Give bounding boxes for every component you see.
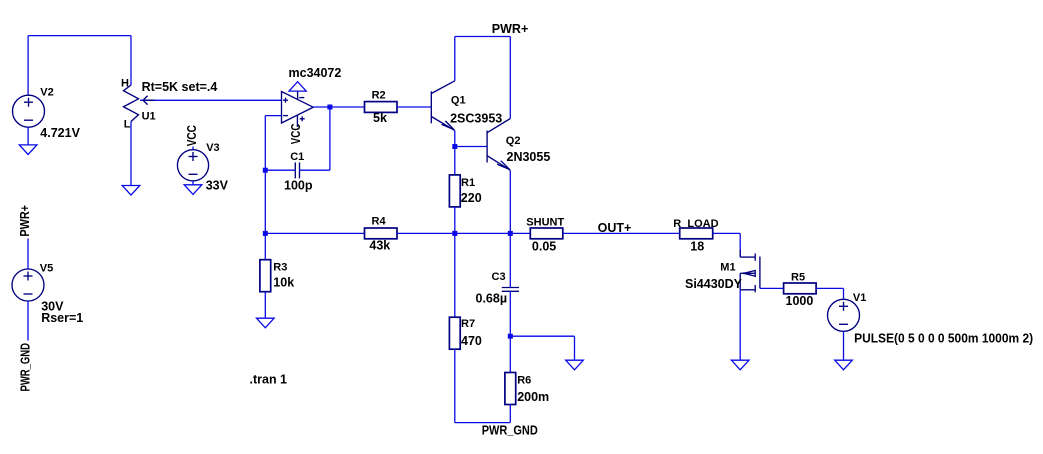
svg-text:Q1: Q1: [451, 95, 466, 107]
ground below M1: [731, 360, 749, 370]
wire R6 top: [509, 336, 511, 372]
wire op-amp output to R2: [313, 106, 364, 108]
svg-text:R3: R3: [273, 261, 287, 273]
svg-text:Q2: Q2: [506, 135, 521, 147]
svg-text:VCC: VCC: [289, 124, 303, 145]
wire M1 source down: [739, 290, 741, 360]
svg-text:33V: 33V: [206, 178, 229, 192]
wire R5 to V1: [816, 287, 843, 289]
resistor R5: [784, 283, 817, 294]
wire Q1 emitter down to node: [454, 131, 456, 147]
wire rail to R3 top: [264, 233, 266, 259]
wire feedback column vertical: [264, 116, 266, 234]
svg-text:R2: R2: [372, 90, 386, 102]
ground below V1: [835, 360, 853, 370]
wire C3 node to right ground: [510, 335, 574, 337]
junction Q1 emitter node: [452, 144, 457, 149]
svg-text:C1: C1: [290, 151, 304, 163]
resistor R2: [365, 102, 398, 113]
svg-text:4.721V: 4.721V: [40, 126, 80, 140]
svg-text:PWR_GND: PWR_GND: [19, 343, 33, 392]
wire U1 wiper to op-amp + input: [140, 99, 282, 101]
svg-text:R6: R6: [517, 375, 531, 387]
op-amp U mc34072: [282, 91, 314, 127]
ground below R3: [257, 318, 275, 328]
svg-text:100p: 100p: [284, 178, 313, 192]
svg-text:OUT+: OUT+: [598, 221, 632, 235]
svg-text:V5: V5: [40, 262, 53, 274]
wire V1 top stub: [843, 288, 845, 299]
svg-text:H: H: [121, 78, 129, 90]
resistor R6: [505, 373, 516, 405]
ground below V3: [184, 185, 202, 195]
potentiometer U1: [124, 85, 156, 122]
ground right of R6: [566, 360, 584, 370]
wire down to M1 drain: [739, 233, 741, 257]
svg-text:200m: 200m: [517, 390, 549, 404]
voltage source V3: [177, 150, 208, 181]
wire Q1 collector up: [454, 37, 456, 81]
mosfet M1 Si4430DY: [740, 250, 760, 292]
transistor Q1 2SC3953: [431, 81, 455, 131]
svg-text:Rser=1: Rser=1: [41, 311, 83, 325]
svg-text:1000: 1000: [786, 294, 814, 308]
svg-text:mc34072: mc34072: [289, 66, 342, 80]
resistor R3: [260, 260, 271, 292]
wire bottom horizontal: [455, 422, 511, 424]
wire M1 gate to R5: [760, 287, 784, 289]
svg-text:V3: V3: [206, 142, 219, 154]
wire U1 top lead: [130, 36, 132, 85]
svg-text:5k: 5k: [373, 111, 387, 125]
wire feedback up to output: [329, 107, 331, 170]
wire rail SHUNT to R_LOAD: [563, 232, 680, 234]
svg-text:PWR+: PWR+: [18, 205, 32, 237]
svg-text:Rt=5K set=.4: Rt=5K set=.4: [142, 80, 218, 94]
svg-text:2N3055: 2N3055: [507, 150, 551, 164]
junction at op-amp output: [327, 105, 332, 110]
wire V1 bottom: [843, 331, 845, 360]
svg-text:M1: M1: [720, 261, 735, 273]
wire V5 bottom: [27, 301, 29, 341]
svg-text:10k: 10k: [273, 276, 294, 290]
svg-text:U1: U1: [142, 110, 156, 122]
resistor R_LOAD: [680, 228, 713, 239]
svg-text:2SC3953: 2SC3953: [450, 111, 502, 125]
svg-text:L: L: [124, 119, 131, 131]
svg-text:VCC: VCC: [185, 125, 199, 146]
wire V3 bottom stub: [192, 181, 194, 185]
resistor R1: [449, 175, 460, 207]
svg-text:R1: R1: [461, 177, 475, 189]
svg-text:0.05: 0.05: [532, 239, 556, 253]
wire PWR+ top rail: [455, 36, 511, 38]
ground below V2: [19, 145, 37, 155]
wire V2 bottom: [27, 127, 29, 145]
wire Q2 emitter down: [509, 170, 511, 233]
wire V3 top stub: [192, 147, 194, 150]
wire R7 bottom: [454, 349, 456, 422]
svg-text:V1: V1: [853, 292, 866, 304]
junction at C1 left: [263, 168, 268, 173]
wire V5 top: [27, 239, 29, 270]
wire node to Q2 base: [455, 146, 487, 148]
voltage source V2: [13, 95, 45, 127]
resistor R7: [449, 317, 460, 349]
resistor R4: [365, 228, 398, 239]
wire R7 column upper: [454, 233, 456, 317]
svg-text:PWR+: PWR+: [492, 22, 528, 36]
svg-text:R5: R5: [791, 271, 805, 283]
resistor SHUNT: [530, 228, 563, 239]
junction rail at Q2 emitter column: [508, 231, 513, 236]
svg-text:PULSE(0 5 0 0 0 500m 1000m 2): PULSE(0 5 0 0 0 500m 1000m 2): [854, 332, 1033, 346]
wire R1 bottom to rail: [454, 207, 456, 234]
transistor Q2 2N3055: [487, 119, 510, 171]
wire R3 bottom: [264, 292, 266, 319]
wire Q2 collector vertical: [509, 37, 511, 119]
ground flag rotated up at op-amp V- pin: [289, 82, 306, 91]
capacitor C1: [295, 162, 299, 178]
junction rail left: [263, 231, 268, 236]
wire R6 bottom: [509, 405, 511, 423]
wire R2 to Q1 base: [397, 106, 431, 108]
wire mid rail left segment: [265, 232, 364, 234]
svg-text:43k: 43k: [369, 239, 390, 253]
wire C3 bottom: [509, 291, 511, 336]
svg-text:Si4430DY: Si4430DY: [685, 277, 743, 291]
svg-text:R4: R4: [372, 216, 387, 228]
wire V2 to U1 top horizontal: [28, 35, 131, 37]
svg-text:470: 470: [461, 334, 482, 348]
svg-text:V2: V2: [40, 87, 53, 99]
wire U1 bottom to ground: [130, 122, 132, 186]
wire V2 top vertical: [27, 36, 29, 96]
svg-text:18: 18: [690, 239, 704, 253]
wire R_LOAD right to corner: [713, 232, 741, 234]
svg-text:220: 220: [461, 191, 482, 205]
wire right ground stem: [574, 336, 576, 360]
svg-text:C3: C3: [492, 271, 506, 283]
svg-text:SHUNT: SHUNT: [526, 216, 564, 228]
wire C3 top: [509, 233, 511, 287]
wire C1 left: [265, 169, 295, 171]
svg-text:R7: R7: [461, 318, 475, 330]
svg-text:.tran 1: .tran 1: [250, 372, 288, 386]
wire op-amp inverting input: [265, 115, 281, 117]
voltage source V1: [828, 299, 860, 331]
junction C3 bottom node: [508, 334, 513, 339]
wire mid rail center segment: [397, 232, 530, 234]
ground below U1: [122, 186, 140, 196]
capacitor C3: [502, 288, 519, 292]
svg-text:PWR_GND: PWR_GND: [482, 423, 538, 437]
svg-text:0.68µ: 0.68µ: [476, 291, 508, 305]
voltage source V5: [12, 269, 44, 301]
junction rail at R1 column: [452, 231, 457, 236]
wire C1 right: [300, 169, 330, 171]
wire node down to R1: [454, 147, 456, 175]
svg-text:R_LOAD: R_LOAD: [673, 218, 718, 230]
